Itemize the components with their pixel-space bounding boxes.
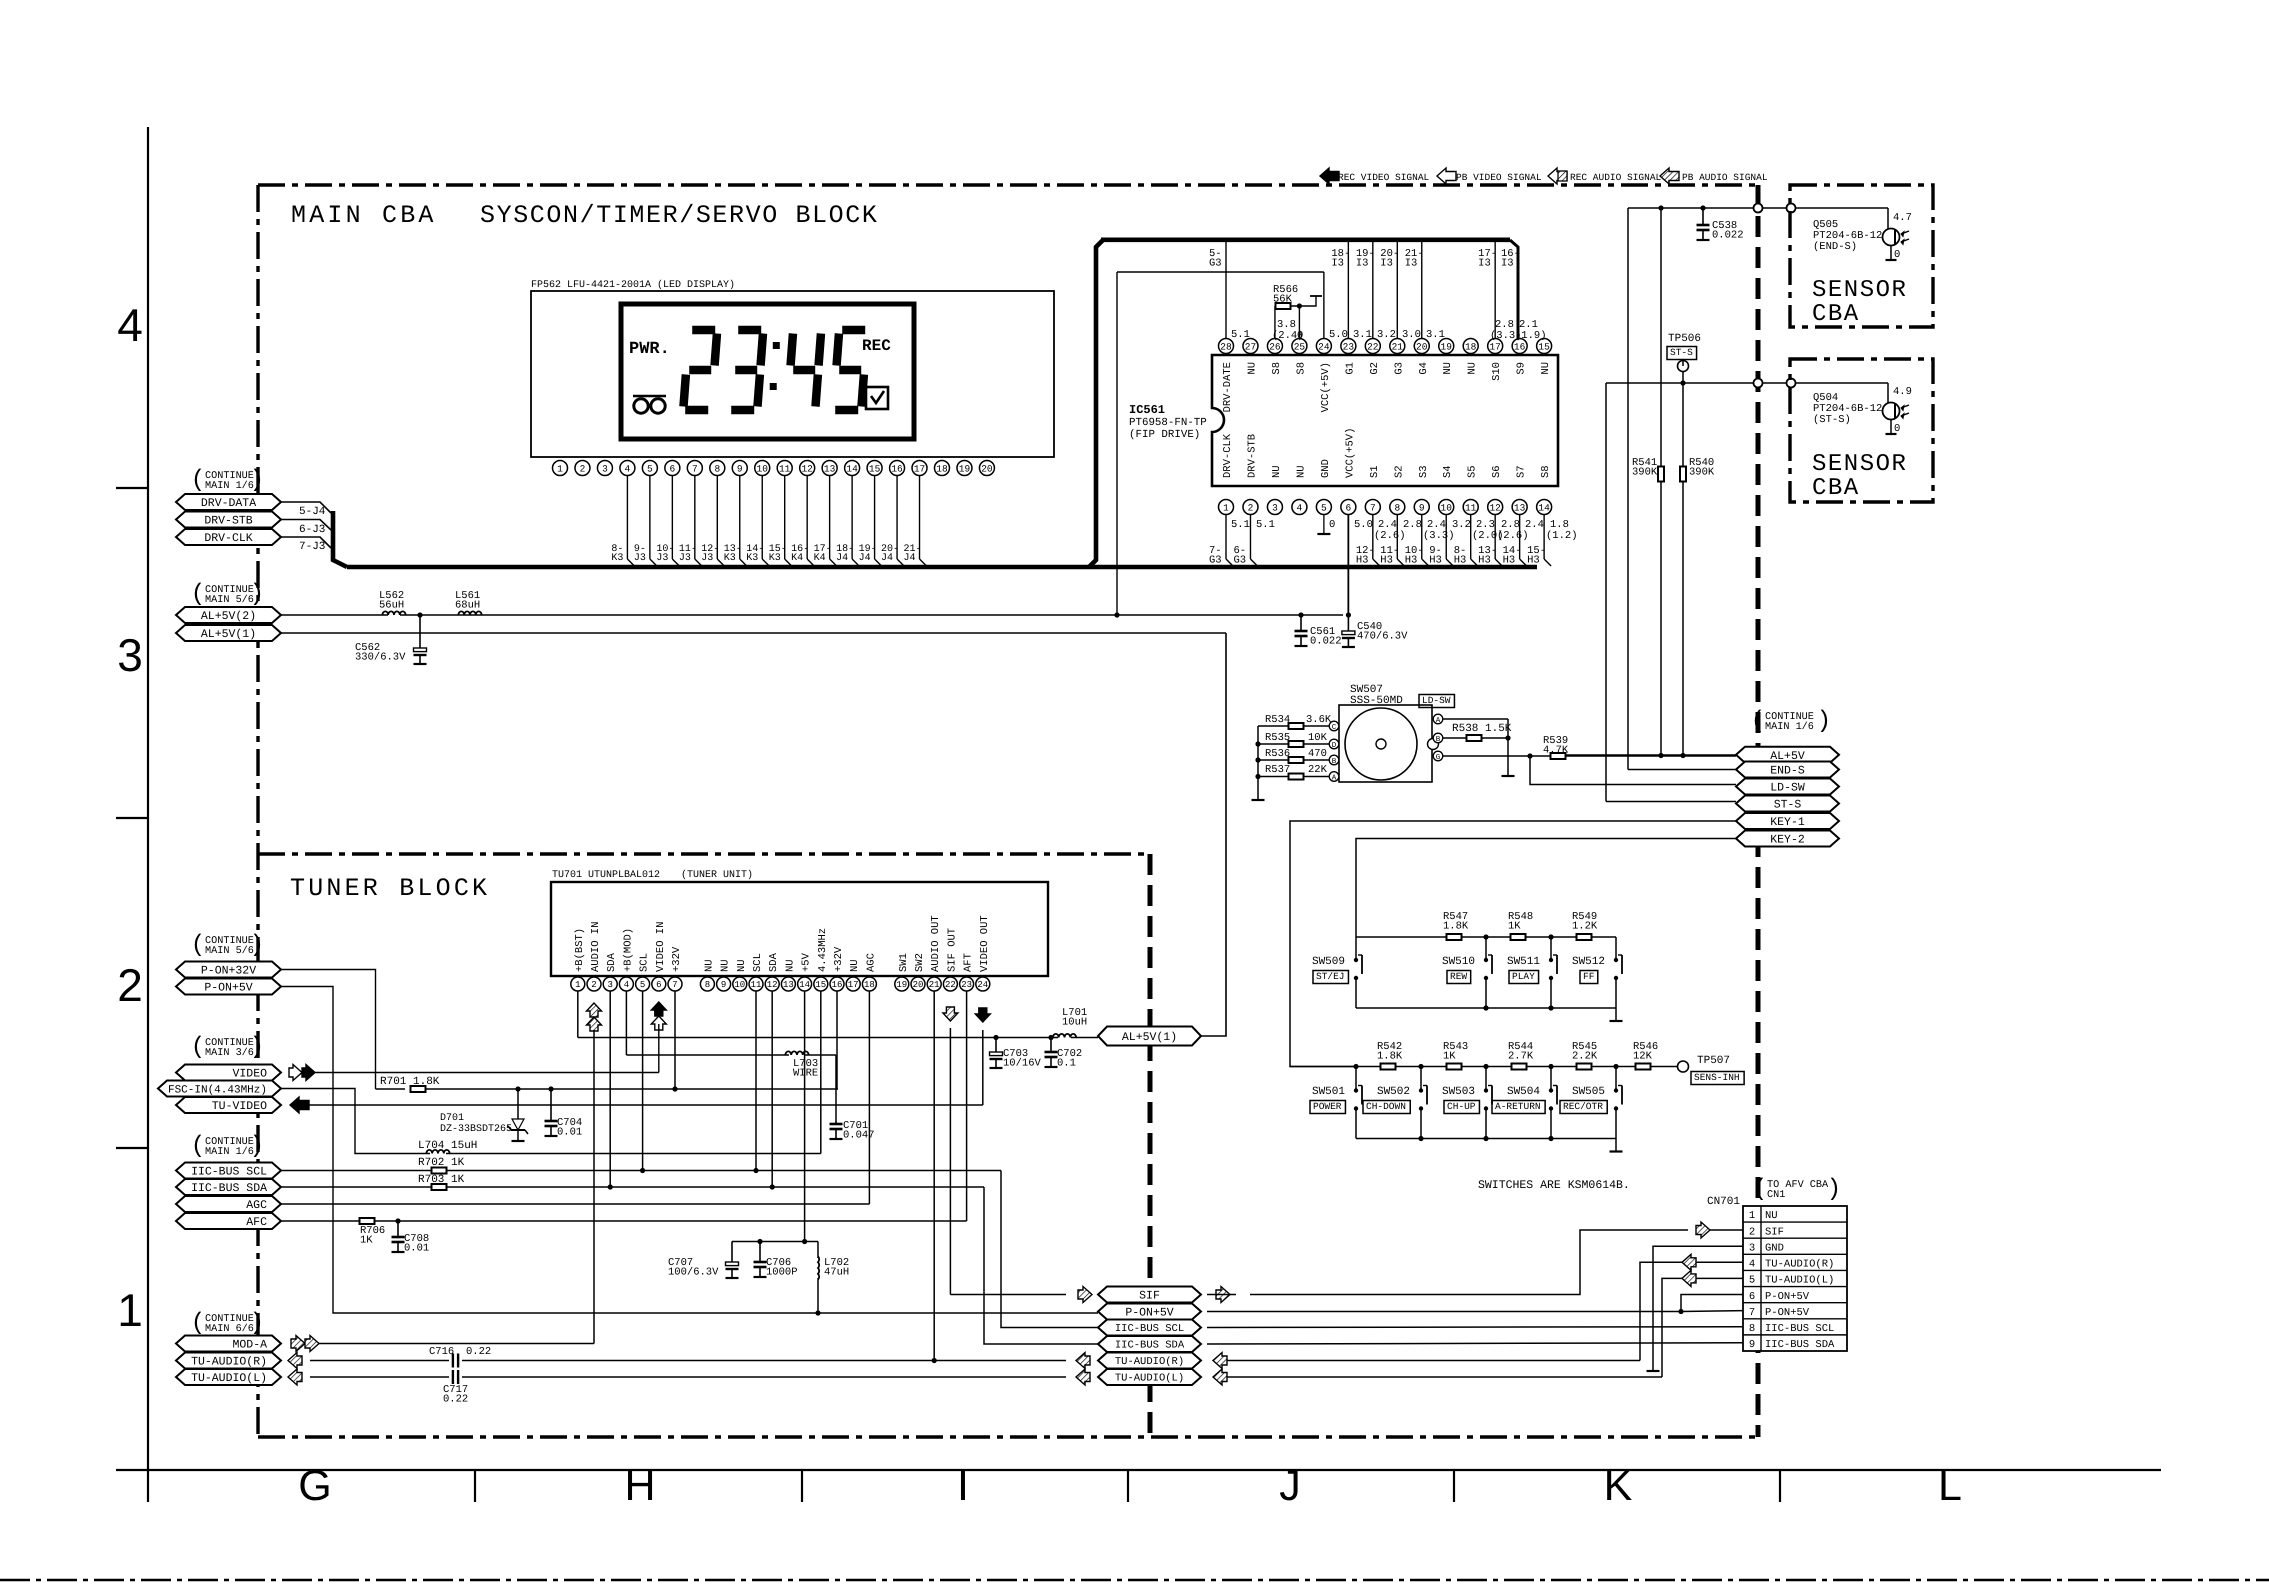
wire display pin 7 to bus (11-J3) [679, 476, 702, 567]
svg-text:TU-AUDIO(L): TU-AUDIO(L) [1115, 1373, 1184, 1385]
ic IC561 bottom pin 6 (VCC(+5V)) [1341, 428, 1357, 515]
switch SW507 right contact B [1433, 733, 1443, 744]
svg-text:5: 5 [1749, 1275, 1755, 1287]
wire into CN701 pin5 [1696, 1277, 1743, 1279]
display pin 9 [732, 461, 747, 476]
svg-text:1K: 1K [1443, 1051, 1456, 1063]
wire display pin 10 to bus (14-K3) [746, 476, 769, 567]
svg-text:NU: NU [1540, 362, 1552, 375]
svg-text:470: 470 [1308, 748, 1327, 760]
svg-text:G: G [1436, 753, 1441, 762]
resistor R538 1.5K [1443, 723, 1512, 741]
svg-text:IIC-BUS SDA: IIC-BUS SDA [1115, 1340, 1185, 1352]
svg-text:0.022: 0.022 [1712, 230, 1744, 242]
display pin 11 [777, 461, 792, 476]
svg-text:S9: S9 [1516, 362, 1528, 375]
ic IC561 bottom pin 8 (S2) [1390, 465, 1406, 514]
tuner TU701 pin 3 (SDA) [603, 952, 618, 991]
svg-text:8: 8 [1394, 502, 1400, 513]
svg-text:REC VIDEO SIGNAL: REC VIDEO SIGNAL [1338, 172, 1430, 183]
svg-text:2.4: 2.4 [1525, 519, 1544, 531]
svg-text:SENS-INH: SENS-INH [1694, 1072, 1740, 1083]
wire ic pin 12 to bus (13-H3) [1478, 515, 1502, 567]
svg-text:PB VIDEO SIGNAL: PB VIDEO SIGNAL [1456, 172, 1542, 183]
svg-text:20: 20 [1416, 341, 1428, 352]
arrow sif out at pin22 [943, 1007, 958, 1021]
switch SW501 labels [1310, 1086, 1345, 1114]
svg-text:J4: J4 [859, 553, 871, 564]
wire AL+5V(1) to tuner [281, 633, 1226, 1036]
wire display pin 16 to bus (20-J4) [881, 476, 904, 567]
svg-text:28: 28 [1220, 341, 1232, 352]
wire AL+5V to tag [1566, 754, 1736, 756]
svg-text:): ) [1817, 708, 1831, 735]
svg-text:AGC: AGC [865, 953, 877, 972]
svg-text:9: 9 [1419, 502, 1425, 513]
arrow VIDEO pair [289, 1065, 315, 1081]
svg-text:1.8K: 1.8K [1443, 921, 1469, 933]
svg-text:SW502: SW502 [1377, 1086, 1410, 1098]
svg-text:VIDEO IN: VIDEO IN [655, 922, 667, 972]
svg-text:(2.6): (2.6) [1497, 530, 1529, 542]
svg-text:3.1: 3.1 [1426, 329, 1445, 341]
frame row tick [116, 1147, 148, 1149]
wire END-S net (top) [1628, 208, 1888, 770]
svg-text:19: 19 [1441, 341, 1453, 352]
switch SW502 [1419, 1067, 1427, 1139]
wire pin11 scl down [755, 991, 757, 1171]
svg-text:MAIN 6/6: MAIN 6/6 [205, 1323, 254, 1335]
svg-text:SW1: SW1 [898, 953, 910, 972]
svg-text:MAIN 1/6: MAIN 1/6 [205, 1146, 254, 1158]
frame row label 2 [117, 959, 143, 1011]
continue main 5/6 note (p-on) [191, 932, 264, 959]
svg-text:10/16V: 10/16V [1003, 1058, 1042, 1070]
resistor R543 1K [1443, 1041, 1468, 1070]
svg-text:0.022: 0.022 [1310, 636, 1342, 648]
svg-text:IIC-BUS SCL: IIC-BUS SCL [191, 1166, 267, 1179]
tag P-ON+5V (left) [176, 979, 281, 995]
display pin 5 [642, 461, 657, 476]
tuner TU701 pin 21 (AUDIO OUT) [927, 915, 942, 991]
ground at SW507 left [1252, 799, 1265, 801]
tuner TU701 body [551, 882, 1048, 976]
svg-text:3.1: 3.1 [1353, 329, 1372, 341]
svg-text:): ) [250, 1310, 264, 1337]
wire SW507 left common [1255, 726, 1260, 800]
svg-text:24: 24 [1318, 341, 1330, 352]
svg-text:H3: H3 [1454, 555, 1467, 567]
wire FSC-IN route [281, 991, 821, 1154]
connector CN701 TO AFV CBA [1743, 1206, 1847, 1351]
arrow TU-AUDIO(L) into CN701 [1682, 1270, 1696, 1286]
tag IIC-BUS SCL (mid) [1098, 1320, 1201, 1336]
tuner TU701 pin 9 (NU) [717, 959, 732, 991]
wire IIC-BUS SDA row [281, 1187, 1098, 1344]
svg-text:J4: J4 [904, 553, 916, 564]
svg-text:H3: H3 [1429, 555, 1442, 567]
svg-text:D701: D701 [440, 1113, 464, 1124]
display pin 14 [845, 461, 860, 476]
svg-text:13: 13 [824, 463, 836, 474]
svg-text:5.1: 5.1 [1231, 519, 1250, 531]
display pin 16 [890, 461, 905, 476]
tuner TU701 pin 19 (SW1) [895, 953, 910, 991]
ic IC561 bottom pin 2 (DRV-STB) [1243, 434, 1259, 515]
svg-text:MAIN 5/6: MAIN 5/6 [205, 594, 254, 606]
tag AFC [176, 1213, 281, 1229]
svg-text:KEY-2: KEY-2 [1770, 834, 1805, 847]
ic IC561 bottom pin 3 (NU) [1267, 465, 1283, 514]
node junction C562 [417, 612, 422, 617]
svg-text:): ) [1827, 1176, 1841, 1203]
svg-text:7-J3: 7-J3 [299, 541, 325, 553]
ic IC561 bottom pin 11 (S5) [1463, 465, 1479, 514]
display FP562 label [531, 279, 735, 291]
svg-text:TU-AUDIO(R): TU-AUDIO(R) [191, 1356, 267, 1369]
node junction lower rail [1613, 1064, 1618, 1069]
svg-text:H3: H3 [1503, 555, 1516, 567]
tag FSC-IN(4.43MHz) [158, 1081, 281, 1097]
svg-text:4.7K: 4.7K [1543, 745, 1569, 757]
node junction R538/A [1505, 735, 1510, 740]
svg-text:P-ON+5V: P-ON+5V [1125, 1307, 1173, 1320]
svg-text:K4: K4 [791, 553, 803, 564]
svg-text:24: 24 [977, 980, 988, 990]
display pin 15 [867, 461, 882, 476]
wire ic pin 17 to top bus (17-I3) [1478, 242, 1497, 338]
wire TU-AUDIO(R) row [310, 1360, 1066, 1362]
switch SW511 labels [1507, 956, 1540, 984]
svg-text:CN701: CN701 [1707, 1196, 1740, 1208]
display pin 19 [957, 461, 972, 476]
connector circle END-S at sensor border [1787, 204, 1796, 213]
tag IIC-BUS SDA (left) [176, 1179, 281, 1195]
switch SW507 left contact A [1329, 772, 1339, 783]
svg-text:ST/EJ: ST/EJ [1316, 971, 1345, 982]
switch SW507 left contact B [1329, 755, 1339, 766]
svg-text:K: K [1604, 1462, 1633, 1510]
wire TU-AUDIO(L) to CN701 pin5 [1227, 1278, 1682, 1377]
wire upper key rail [1356, 936, 1616, 938]
svg-text:4: 4 [1749, 1259, 1755, 1271]
svg-text:H3: H3 [1405, 555, 1418, 567]
svg-text:SW509: SW509 [1312, 956, 1345, 968]
tag DRV-CLK [176, 529, 281, 545]
svg-text:4.9: 4.9 [1893, 386, 1912, 398]
display FP562 inner panel [621, 304, 914, 439]
resistor R701 1.8K [380, 1076, 838, 1092]
inductor L702 47uH [818, 1242, 849, 1314]
tuner TU701 pin 17 (NU) [846, 959, 861, 991]
tag AL+5V(1) (tuner) [1098, 1027, 1201, 1046]
tuner TU701 pin 10 (NU) [733, 959, 748, 991]
ground stub at R566 [1299, 296, 1322, 306]
continue main 6/6 note (mod-a) [191, 1310, 264, 1337]
svg-text:MAIN CBA: MAIN CBA [291, 201, 437, 230]
display 7-segment digit 5 [835, 330, 865, 410]
svg-text:(: ( [1753, 1176, 1767, 1203]
svg-text:11: 11 [751, 980, 762, 990]
tuner block border top [258, 852, 1150, 855]
svg-text:S7: S7 [1516, 465, 1528, 478]
svg-text:P-ON+32V: P-ON+32V [201, 965, 256, 978]
svg-text:A: A [1436, 717, 1441, 725]
wire DRV-STB to bus (6-J3) [281, 520, 331, 537]
svg-text:K4: K4 [814, 553, 826, 564]
svg-text:MAIN 5/6: MAIN 5/6 [205, 945, 254, 957]
svg-text:DRV-CLK: DRV-CLK [1222, 433, 1234, 478]
connector circle ST-S at sensor border [1787, 379, 1796, 388]
svg-text:12: 12 [1489, 502, 1501, 513]
svg-text:5: 5 [1321, 502, 1327, 513]
svg-text:AUDIO OUT: AUDIO OUT [930, 915, 942, 972]
sensor cba box 1 (END-S) [1790, 185, 1933, 327]
wire ic pin 24 vcc to AL+5V(2) [1117, 272, 1324, 615]
svg-text:3: 3 [1749, 1242, 1755, 1254]
tuner TU701 pin 24 (VIDEO OUT) [976, 915, 991, 991]
tag IIC-BUS SDA (mid) [1098, 1336, 1201, 1352]
svg-text:0.01: 0.01 [404, 1243, 429, 1255]
frame column label G [298, 1462, 331, 1510]
svg-text:G1: G1 [1344, 362, 1356, 375]
tag AL+5V(2) [176, 607, 281, 623]
display timer-check icon [866, 387, 888, 409]
svg-text:DRV-DATA: DRV-DATA [201, 497, 256, 510]
resistor R537 22K [1258, 764, 1329, 780]
wire upper key row bottom rail [1356, 1005, 1616, 1010]
wire ic pin 9 to bus (10-H3) [1405, 515, 1429, 567]
switch SW504 labels [1492, 1086, 1545, 1114]
svg-text:56K: 56K [1273, 294, 1293, 306]
svg-text:S8: S8 [1271, 362, 1283, 375]
svg-text:TU-AUDIO(L): TU-AUDIO(L) [1765, 1275, 1834, 1287]
wire IIC-BUS SCL to CN701 pin8 [1207, 1326, 1743, 1329]
svg-text:I: I [957, 1462, 969, 1510]
arrow video in at pin6 [651, 1002, 666, 1030]
svg-text:7: 7 [692, 463, 698, 474]
svg-text:NU: NU [784, 959, 796, 972]
tuner block border right (bold dashed) [1148, 854, 1153, 1437]
wire SW507 contact A to ground [1443, 719, 1508, 776]
svg-text:P-ON+5V: P-ON+5V [1765, 1291, 1810, 1303]
wire lower key row bottom rail [1356, 1136, 1616, 1141]
wire display pin 12 to bus (16-K4) [791, 476, 814, 567]
svg-text:12K: 12K [1633, 1051, 1653, 1063]
frame bottom page separator dash-dot line [0, 1579, 2269, 1582]
display pin 10 [755, 461, 770, 476]
ic IC561 top pin 25 (S8) [1292, 339, 1308, 375]
svg-text:SW510: SW510 [1442, 956, 1475, 968]
inductor L703 WIRE [785, 1051, 818, 1079]
capacitor C704 0.01 [545, 1089, 583, 1139]
node junction C702 [1048, 1035, 1053, 1040]
svg-text:1.8K: 1.8K [1377, 1051, 1403, 1063]
svg-text:TP507: TP507 [1697, 1055, 1730, 1067]
svg-text:AL+5V(2): AL+5V(2) [201, 610, 256, 623]
node junction pin12 sda [770, 1184, 775, 1189]
svg-text:TU701 UTUNPLBAL012: TU701 UTUNPLBAL012 [552, 870, 660, 881]
wire DRV-DATA to bus (5-J4) [281, 502, 331, 518]
svg-text:K3: K3 [724, 553, 736, 564]
bus drv/display to ic561 (thick) [333, 240, 1537, 567]
main cba block border left [256, 185, 259, 1437]
resistor R706 1K [360, 1218, 386, 1247]
svg-text:9: 9 [737, 463, 743, 474]
tuner TU701 pin 5 (SCL) [636, 953, 651, 991]
svg-text:G: G [298, 1462, 331, 1510]
svg-text:(: ( [191, 581, 205, 608]
svg-text:(: ( [191, 467, 205, 494]
svg-text:REC: REC [862, 337, 891, 355]
node junction TP506/R540 on ST-S [1680, 380, 1685, 385]
svg-text:NU: NU [849, 959, 861, 972]
resistor R702 1K [418, 1157, 465, 1174]
svg-text:4: 4 [1297, 502, 1303, 513]
svg-text:I3: I3 [1331, 258, 1344, 270]
capacitor C716 0.22 [429, 1346, 491, 1368]
tuner TU701 pin 23 (AFT) [960, 953, 975, 991]
svg-text:26: 26 [1269, 341, 1281, 352]
tag AGC [176, 1196, 281, 1212]
resistor R546 12K [1633, 1041, 1658, 1070]
wire pin14 +5V down [804, 991, 806, 1242]
svg-text:1000P: 1000P [766, 1267, 798, 1279]
resistor R541 390K [1632, 208, 1664, 756]
ground at lower key row [1610, 1139, 1623, 1152]
tag END-S [1736, 762, 1839, 778]
display 7-segment digit 3 [731, 330, 763, 410]
node junction C708 [395, 1218, 400, 1223]
switch SW503 [1484, 1067, 1492, 1139]
ic IC561 bottom pin 12 (S6) [1488, 465, 1504, 514]
display 7-segment digit 4 [791, 334, 821, 407]
svg-text:16: 16 [891, 463, 903, 474]
inductor L701 10uH [1053, 1007, 1087, 1038]
svg-text:100/6.3V: 100/6.3V [668, 1267, 719, 1279]
svg-text:ST-S: ST-S [1670, 347, 1693, 358]
svg-text:1: 1 [117, 1284, 143, 1336]
svg-text:MAIN 1/6: MAIN 1/6 [1765, 721, 1814, 733]
svg-text:7: 7 [1749, 1307, 1755, 1319]
wire ic pin 13 to bus (14-H3) [1503, 515, 1527, 567]
svg-text:1K: 1K [1508, 921, 1521, 933]
connector CN701 note [1753, 1176, 1841, 1203]
wire pin12 sda down [771, 991, 773, 1187]
display pin 6 [665, 461, 680, 476]
svg-text:SDA: SDA [606, 952, 618, 972]
svg-text:1: 1 [575, 980, 580, 990]
svg-text:GND: GND [1765, 1242, 1784, 1254]
svg-text:5.1: 5.1 [1231, 329, 1250, 341]
capacitor C717 0.22 [443, 1370, 468, 1406]
wire into CN701 pin4 [1696, 1261, 1743, 1263]
svg-text:6: 6 [1749, 1291, 1755, 1303]
svg-text:VIDEO: VIDEO [232, 1068, 267, 1081]
svg-text:MAIN 1/6: MAIN 1/6 [205, 480, 254, 492]
svg-text:C716: C716 [429, 1346, 454, 1358]
svg-text:IIC-BUS SDA: IIC-BUS SDA [191, 1182, 267, 1195]
svg-text:17: 17 [848, 980, 859, 990]
continue main 1/6 note (drv) [191, 467, 264, 494]
svg-text:ST-S: ST-S [1774, 799, 1802, 812]
svg-text:S8: S8 [1295, 362, 1307, 375]
tag TU-AUDIO(R) (mid) [1098, 1353, 1201, 1369]
svg-text:NU: NU [1442, 362, 1454, 375]
tuner TU701 pin 8 (NU) [700, 959, 715, 991]
svg-text:47uH: 47uH [824, 1267, 849, 1279]
svg-text:J3: J3 [679, 553, 691, 564]
main cba title [291, 201, 437, 230]
svg-text:NU: NU [1246, 362, 1258, 375]
frame row tick [116, 817, 148, 819]
svg-text:(ST-S): (ST-S) [1813, 414, 1851, 426]
svg-text:SIF: SIF [1139, 1290, 1160, 1303]
arrow video out at pin24 [975, 1008, 990, 1022]
svg-text:SCL: SCL [752, 953, 764, 972]
svg-text:SENSOR: SENSOR [1812, 277, 1907, 304]
resistor R539 4.7K [1543, 735, 1569, 759]
tag MOD-A [176, 1336, 281, 1352]
tag TU-AUDIO(L) (mid) [1098, 1369, 1201, 1385]
svg-text:REC AUDIO SIGNAL: REC AUDIO SIGNAL [1570, 172, 1662, 183]
arrow SIF out of tag [1216, 1287, 1230, 1303]
svg-text:FF: FF [1583, 971, 1595, 982]
svg-text:): ) [250, 1133, 264, 1160]
svg-text:H3: H3 [1380, 555, 1393, 567]
ic IC561 bottom pin 7 (S1) [1365, 465, 1381, 514]
svg-text:LD-SW: LD-SW [1770, 782, 1805, 795]
main cba block border top [258, 183, 1758, 186]
tag P-ON+5V (mid) [1098, 1304, 1201, 1320]
wire KEY-1 to lower switch row [1290, 821, 1736, 1067]
wire ic pin 20 to top bus (21-I3) [1405, 242, 1424, 338]
svg-text:CH-UP: CH-UP [1447, 1101, 1476, 1112]
svg-text:IIC-BUS SCL: IIC-BUS SCL [1765, 1323, 1834, 1335]
tag IIC-BUS SCL (left) [176, 1163, 281, 1179]
wire display pin 11 to bus (15-K3) [769, 476, 792, 567]
wire display pin 4 to bus (8-K3) [611, 476, 634, 567]
svg-text:NU: NU [1295, 465, 1307, 478]
svg-text:TU-AUDIO(R): TU-AUDIO(R) [1115, 1356, 1184, 1368]
svg-text:0: 0 [1894, 249, 1900, 261]
svg-text:3.2: 3.2 [1452, 519, 1471, 531]
arrow TU-AUDIO(R) right of tag [1213, 1353, 1227, 1369]
tag SIF (mid) [1098, 1287, 1201, 1303]
svg-text:NU: NU [720, 959, 732, 972]
tuner TU701 pin 20 (SW2) [911, 953, 926, 991]
svg-text:L: L [1938, 1462, 1962, 1510]
tuner TU701 pin 22 (SIF OUT) [943, 928, 958, 991]
svg-text:L704 15uH: L704 15uH [418, 1140, 477, 1152]
wire ic pin 28 to top bus (5-G3) [1209, 242, 1226, 338]
wire ic pin 22 to top bus (19-I3) [1356, 242, 1375, 338]
svg-text:17: 17 [914, 463, 925, 474]
wire pin3 sda down [609, 991, 611, 1187]
node junction pin7 on +32V rail [672, 1086, 677, 1091]
svg-text:G4: G4 [1418, 362, 1430, 375]
tuner TU701 pin 16 (+32V) [830, 946, 845, 991]
tag AL+5V (right) [1736, 747, 1839, 763]
svg-text:(2.6): (2.6) [1374, 530, 1406, 542]
svg-text:SENSOR: SENSOR [1812, 451, 1907, 478]
svg-text:K3: K3 [746, 553, 758, 564]
wire TU-VIDEO from pin24 [302, 1030, 983, 1105]
node junction pin5 scl [640, 1168, 645, 1173]
display pin 20 [979, 461, 994, 476]
svg-text:5.0: 5.0 [1354, 519, 1373, 531]
svg-text:11: 11 [1465, 502, 1477, 513]
